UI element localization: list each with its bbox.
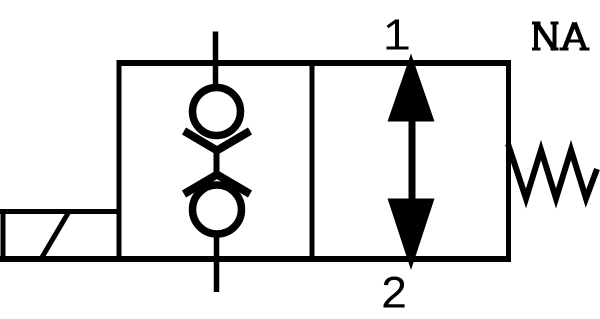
wire connector between check valves — [214, 148, 220, 178]
spring — [508, 144, 597, 199]
svg-text:2: 2 — [380, 270, 408, 319]
solenoid Y1 coil — [0, 209, 119, 259]
wire bottom edge of valve body and solenoid base — [0, 256, 511, 262]
wire solenoid left edge — [1, 209, 6, 259]
check valve ball top circle — [193, 88, 241, 136]
check valve ball bottom circle — [193, 185, 242, 234]
wire left edge of left box — [117, 60, 122, 262]
wire top edge of valve body — [117, 60, 512, 66]
wire middle divider between boxes — [310, 60, 315, 262]
label NA — [532, 22, 590, 50]
flow arrow double headed — [388, 54, 435, 271]
check valve seat V top — [184, 131, 250, 151]
wire solenoid diagonal — [41, 212, 69, 260]
check valve seat V bottom — [184, 175, 250, 195]
wire solenoid top edge — [0, 209, 119, 214]
wire bottom port stub — [214, 234, 220, 292]
wire right edge of right box — [506, 60, 511, 262]
letter A — [564, 23, 575, 50]
valve body left box — [0, 60, 511, 262]
wire top port stub — [213, 32, 219, 89]
port label 1 — [387, 20, 409, 49]
letter N — [532, 22, 541, 25]
